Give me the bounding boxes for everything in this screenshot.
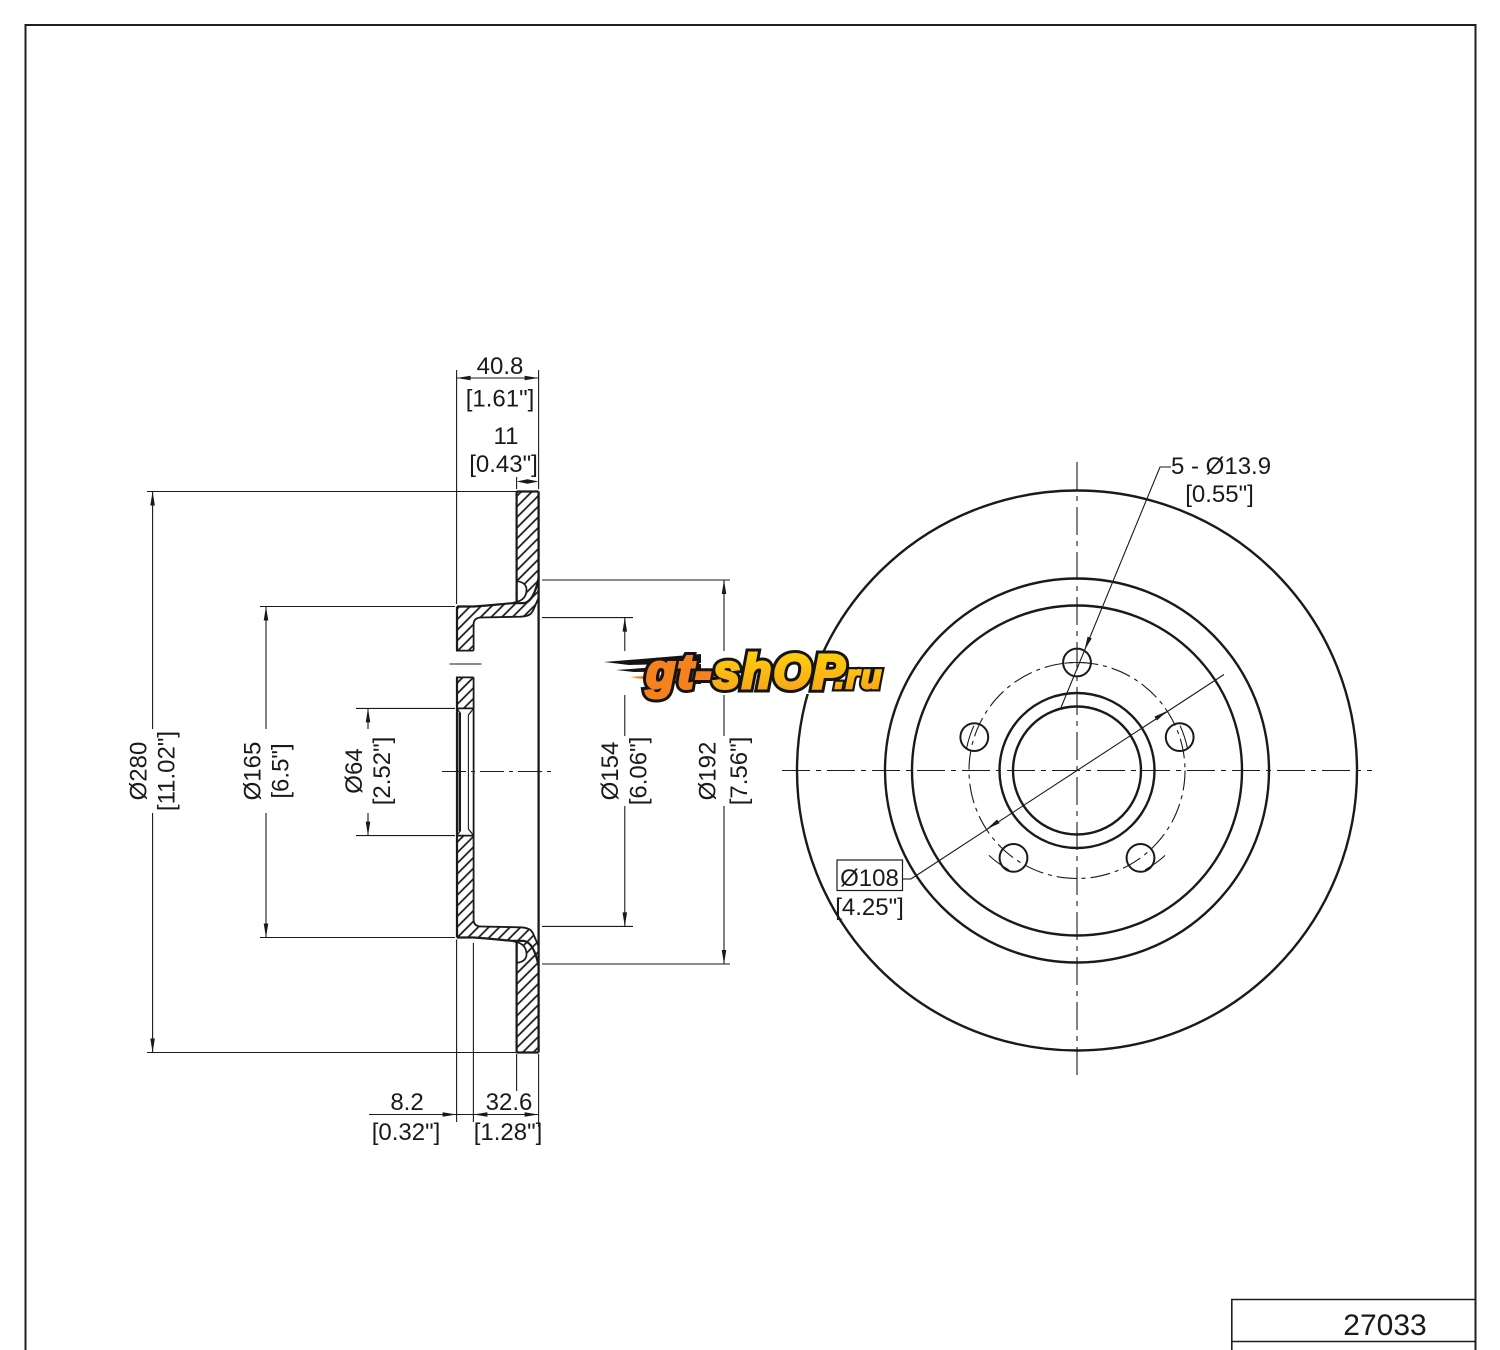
svg-text:gt-shOP: gt-shOP [645, 646, 847, 699]
relief groove bottom (void) [517, 942, 527, 963]
dimension Ø192 line [723, 580, 725, 651]
bore chamfers [457, 709, 460, 713]
dimension 8.2 line [369, 1114, 473, 1116]
rotor section hatched body [457, 492, 539, 1053]
bottom dimension extension lines [456, 940, 458, 1123]
hat flange circle Ø165 [912, 606, 1242, 936]
dimension 40.8 line [457, 377, 539, 379]
bolt circle Ø108 (dash-dot) [969, 663, 1185, 879]
svg-text:[7.56"]: [7.56"] [726, 737, 753, 806]
bolt hole upper right [1166, 723, 1194, 751]
dimension Ø108 diagonal line [911, 675, 1224, 880]
svg-text:Ø165: Ø165 [240, 742, 267, 801]
dimension Ø280 line [152, 492, 154, 730]
center bore bottom edge [456, 835, 474, 837]
svg-text:32.6: 32.6 [486, 1089, 533, 1116]
svg-text:Ø108: Ø108 [840, 865, 899, 892]
dimension Ø64 extension lines [356, 707, 455, 709]
svg-text:Ø154: Ø154 [597, 742, 624, 801]
cavity inner surface bottom [474, 920, 539, 947]
svg-text:[2.52"]: [2.52"] [369, 737, 396, 806]
section centerline [442, 771, 556, 773]
outer fillet top [524, 578, 539, 603]
dimension 11 line (diamond arrows) [517, 479, 539, 484]
label Ø108 boxed [837, 860, 903, 891]
dimension 11 extension lines [516, 477, 518, 489]
title block [1231, 1300, 1476, 1350]
dimension Ø165 line [265, 607, 267, 730]
svg-text:.ru: .ru [835, 658, 883, 695]
hat cavity (void) [474, 597, 539, 947]
dimension Ø192 extension lines [542, 579, 730, 581]
disc top edge [517, 490, 539, 492]
horizontal centerline [782, 770, 1372, 772]
svg-text:[1.61"]: [1.61"] [466, 386, 535, 413]
svg-text:40.8: 40.8 [477, 353, 524, 380]
bore surface line [459, 713, 461, 831]
hat wall outer edge top [457, 603, 524, 606]
cavity inner surface top [474, 598, 539, 625]
svg-text:27033: 27033 [1343, 1309, 1426, 1342]
mounting face (flange left) [456, 607, 458, 651]
dimension Ø165 extension lines [260, 606, 455, 608]
svg-text:Ø192: Ø192 [695, 742, 722, 801]
hub bore circle Ø64 [1013, 707, 1141, 835]
hat wall outer edge bottom [457, 938, 524, 941]
svg-text:5 - Ø13.9: 5 - Ø13.9 [1171, 453, 1271, 480]
svg-text:[6.06"]: [6.06"] [626, 737, 653, 806]
dimension Ø64 line [367, 708, 369, 729]
hub chamfer circle [1000, 693, 1155, 848]
bolt hole gap in flange [456, 651, 475, 678]
dimension Ø154 line [624, 618, 626, 651]
bolt hole lower right [1127, 844, 1155, 872]
svg-text:[4.25"]: [4.25"] [835, 894, 904, 921]
watermark gt-shop.ru [600, 646, 883, 699]
bore far chamfer line [467, 715, 469, 829]
friction band inner circle Ø192 [885, 579, 1269, 963]
svg-text:8.2: 8.2 [390, 1089, 423, 1116]
center bore top edge [456, 707, 474, 709]
bolt hole lower left [1000, 844, 1028, 872]
bolt circle solid arcs through holes [966, 662, 1187, 869]
bolt hole top [1063, 649, 1091, 677]
svg-text:[0.43"]: [0.43"] [469, 451, 538, 478]
vertical centerline [1076, 462, 1078, 1078]
svg-text:[0.32"]: [0.32"] [372, 1119, 441, 1146]
dimension Ø280 extension lines [147, 491, 517, 493]
leader 5-Ø13.9 [1060, 467, 1171, 710]
disc inner face left bottom [513, 941, 517, 1052]
disc bottom edge [517, 1051, 539, 1053]
flange back face (cavity left) [473, 625, 475, 651]
outer fillet bottom [524, 941, 539, 966]
svg-text:11: 11 [494, 423, 519, 450]
disc inner face left top [513, 492, 517, 603]
dimension 40.8 extension lines [456, 370, 458, 604]
bolt hole centerline tick [450, 663, 482, 665]
dimension Ø154 extension lines [542, 617, 633, 619]
svg-text:[1.28"]: [1.28"] [474, 1119, 543, 1146]
svg-text:[0.55"]: [0.55"] [1185, 481, 1254, 508]
outer diameter circle Ø280 [797, 491, 1357, 1051]
svg-text:[6.5"]: [6.5"] [268, 743, 295, 798]
bolt hole upper left [960, 723, 988, 751]
svg-text:[11.02"]: [11.02"] [154, 731, 181, 811]
svg-text:Ø64: Ø64 [341, 748, 368, 793]
disc friction face right [537, 492, 539, 1053]
center bore gap [456, 709, 475, 836]
bolt hole edges in flange [456, 650, 474, 652]
dimension 32.6 line [473, 1114, 538, 1116]
relief groove top (void) [517, 581, 527, 602]
svg-text:Ø280: Ø280 [126, 742, 153, 801]
